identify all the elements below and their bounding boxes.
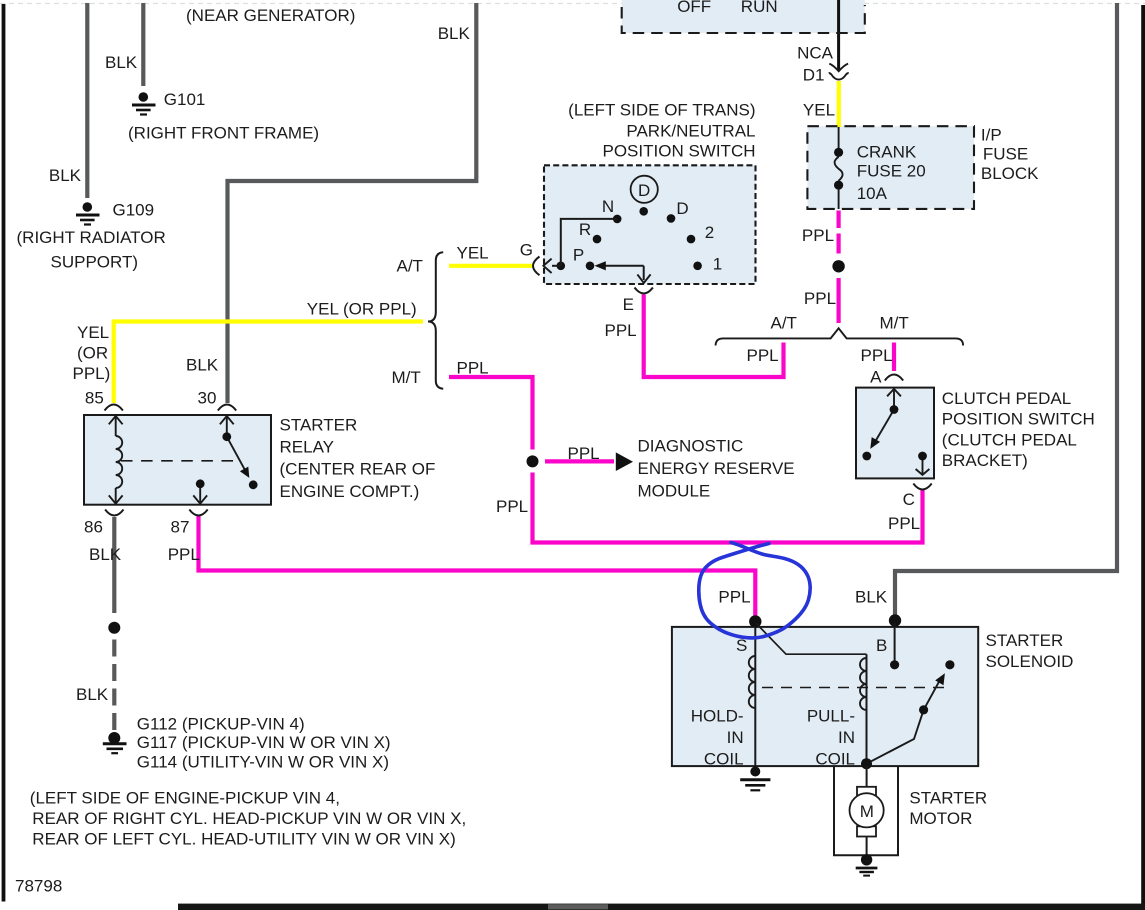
svg-text:REAR OF RIGHT CYL. HEAD-PICKUP: REAR OF RIGHT CYL. HEAD-PICKUP VIN W OR … [32,809,466,828]
svg-text:G114 (UTILITY-VIN W OR VIN X): G114 (UTILITY-VIN W OR VIN X) [137,753,389,772]
svg-text:I/P: I/P [981,126,1002,145]
svg-text:PPL: PPL [802,226,834,245]
svg-text:G109: G109 [113,200,155,219]
svg-text:PPL: PPL [168,545,200,564]
svg-text:COIL: COIL [704,750,744,769]
svg-text:2: 2 [705,223,714,242]
svg-text:1: 1 [713,255,722,274]
svg-text:BLK: BLK [89,545,122,564]
svg-text:STARTER: STARTER [909,788,987,807]
svg-text:BLK: BLK [855,587,888,606]
svg-text:G101: G101 [164,90,206,109]
svg-text:N: N [602,197,614,216]
svg-text:87: 87 [171,518,190,537]
svg-text:ENERGY RESERVE: ENERGY RESERVE [638,459,795,478]
svg-text:IN: IN [838,728,855,747]
svg-text:POSITION SWITCH: POSITION SWITCH [942,409,1095,428]
svg-text:D: D [638,181,650,200]
svg-text:D: D [676,199,688,218]
svg-text:PPL: PPL [568,444,600,463]
svg-text:(LEFT SIDE OF TRANS): (LEFT SIDE OF TRANS) [568,100,755,119]
svg-text:CRANK: CRANK [857,142,917,161]
svg-text:IN: IN [727,728,744,747]
svg-text:(CENTER REAR OF: (CENTER REAR OF [280,460,436,479]
svg-text:PARK/NEUTRAL: PARK/NEUTRAL [626,122,755,141]
svg-text:PPL: PPL [804,289,836,308]
svg-text:PPL: PPL [718,587,750,606]
svg-text:78798: 78798 [15,877,62,896]
svg-text:PPL): PPL) [73,364,111,383]
svg-text:YEL: YEL [77,323,109,342]
svg-text:85: 85 [85,389,104,408]
svg-text:P: P [573,246,584,265]
svg-text:A/T: A/T [397,257,423,276]
svg-text:PPL: PPL [605,321,637,340]
svg-text:STARTER: STARTER [280,416,358,435]
svg-text:FUSE: FUSE [983,144,1028,163]
svg-text:FUSE 20: FUSE 20 [857,162,926,181]
svg-text:PULL-: PULL- [807,707,855,726]
svg-text:C: C [903,490,915,509]
svg-text:OFF: OFF [677,0,711,16]
svg-text:BLK: BLK [186,356,219,375]
svg-text:MODULE: MODULE [638,481,711,500]
svg-text:SUPPORT): SUPPORT) [51,252,139,271]
svg-text:BLK: BLK [438,24,471,43]
svg-text:PPL: PPL [747,346,779,365]
svg-text:30: 30 [198,389,217,408]
svg-text:YEL (OR PPL): YEL (OR PPL) [307,300,417,319]
svg-text:A/T: A/T [771,314,797,333]
svg-text:G112 (PICKUP-VIN 4): G112 (PICKUP-VIN 4) [137,715,305,734]
svg-text:M: M [860,802,874,821]
svg-text:BLK: BLK [105,53,138,72]
svg-text:86: 86 [84,518,103,537]
svg-text:D1: D1 [803,66,825,85]
svg-text:HOLD-: HOLD- [691,707,744,726]
svg-text:COIL: COIL [815,750,855,769]
svg-text:10A: 10A [857,184,888,203]
svg-text:BLK: BLK [76,685,109,704]
svg-text:E: E [623,295,634,314]
svg-text:(RIGHT RADIATOR: (RIGHT RADIATOR [17,228,166,247]
svg-text:R: R [579,220,591,239]
svg-text:YEL: YEL [803,101,835,120]
svg-text:BLK: BLK [49,166,82,185]
svg-text:PPL: PPL [457,359,489,378]
svg-text:DIAGNOSTIC: DIAGNOSTIC [638,437,744,456]
svg-text:STARTER: STARTER [986,631,1064,650]
svg-text:G: G [520,241,533,260]
svg-text:A: A [870,368,882,387]
svg-text:BLOCK: BLOCK [981,164,1039,183]
svg-text:PPL: PPL [888,514,920,533]
svg-text:(LEFT SIDE OF ENGINE-PICKUP VI: (LEFT SIDE OF ENGINE-PICKUP VIN 4, [30,788,340,807]
svg-text:(CLUTCH PEDAL: (CLUTCH PEDAL [942,431,1077,450]
svg-text:G117 (PICKUP-VIN W OR VIN X): G117 (PICKUP-VIN W OR VIN X) [137,733,391,752]
svg-text:(RIGHT FRONT FRAME): (RIGHT FRONT FRAME) [128,124,319,143]
svg-text:MOTOR: MOTOR [909,809,972,828]
svg-text:RUN: RUN [741,0,778,16]
svg-text:(OR: (OR [77,344,108,363]
svg-text:M/T: M/T [880,314,909,333]
svg-text:PPL: PPL [496,497,528,516]
svg-text:NCA: NCA [797,44,834,63]
svg-text:REAR OF LEFT CYL. HEAD-UTILITY: REAR OF LEFT CYL. HEAD-UTILITY VIN W OR … [32,830,456,849]
svg-text:POSITION SWITCH: POSITION SWITCH [603,142,756,161]
svg-text:M/T: M/T [392,368,421,387]
svg-text:(NEAR GENERATOR): (NEAR GENERATOR) [186,6,355,25]
svg-text:PPL: PPL [861,346,893,365]
svg-text:SOLENOID: SOLENOID [986,652,1074,671]
svg-text:ENGINE COMPT.): ENGINE COMPT.) [280,482,420,501]
svg-text:CLUTCH PEDAL: CLUTCH PEDAL [942,389,1071,408]
svg-text:YEL: YEL [457,244,489,263]
svg-text:B: B [876,636,887,655]
svg-text:RELAY: RELAY [280,438,335,457]
svg-text:BRACKET): BRACKET) [942,451,1028,470]
